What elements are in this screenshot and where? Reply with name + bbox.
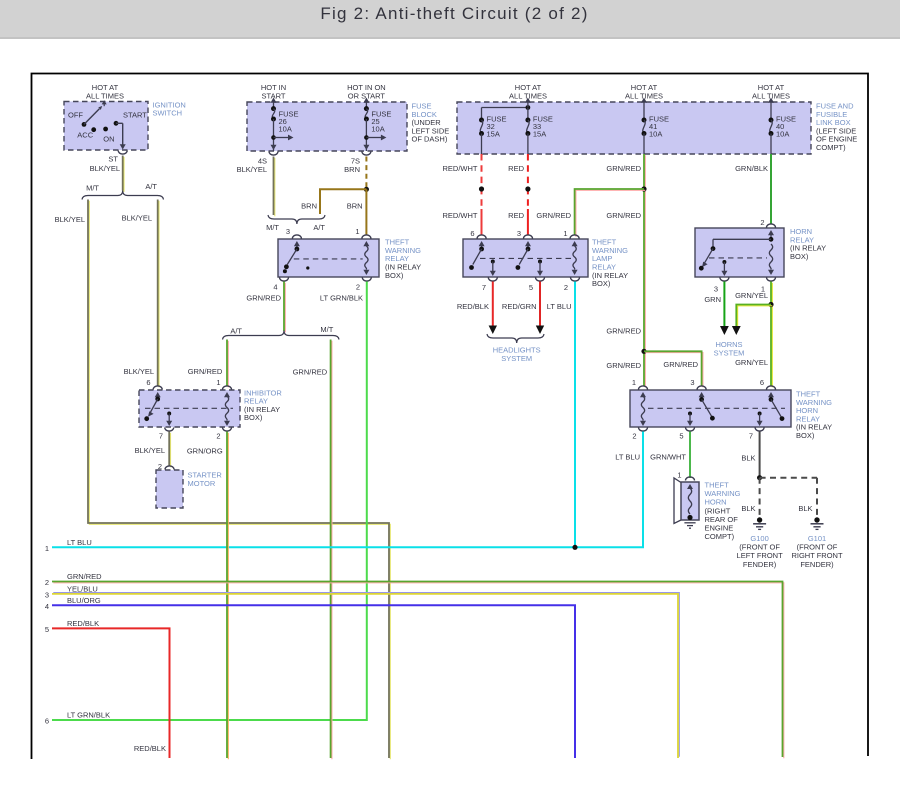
wire GRN/RED M/T long down [331,340,332,760]
inhibitor relay box [139,390,240,427]
wire LT BLU TW horn relay pin 2 [52,432,643,548]
svg-text:A/T: A/T [230,326,242,335]
svg-text:BLK/YEL: BLK/YEL [90,164,120,173]
horn relay pin 3 contact arrow [721,260,727,276]
svg-text:2: 2 [632,432,636,441]
svg-text:RED/BLK: RED/BLK [457,302,489,311]
label BLK (G101) [798,504,812,513]
label BRN (pin 1) [347,201,363,210]
starter motor box [156,470,183,508]
svg-text:ON: ON [103,135,114,144]
pin 1 (TW horn relay) [632,378,636,387]
fuse 40 10A [768,98,796,155]
wire BLK dashed to G100 [759,478,761,517]
inhibitor relay pin 7 connector [165,428,174,432]
fuse block box [247,102,407,151]
label GRN [704,295,721,304]
arrowhead RED/BLK headlights [489,326,497,335]
wire RED solid to lamp relay pin 3 [527,209,529,236]
label RED/WHT (lower) [443,211,478,220]
label ACC [77,131,93,140]
TW horn relay pin 6 connector [767,386,776,390]
pin 2 (lamp relay) [564,283,568,292]
inhibitor relay pin 1 connector [223,386,232,390]
svg-text:START: START [123,111,147,120]
junction BLK [757,475,762,480]
svg-text:MOTOR: MOTOR [188,479,216,488]
inhibitor relay pin 7 contact arrow [166,412,172,427]
svg-text:2: 2 [564,283,568,292]
svg-text:6: 6 [470,229,474,238]
fuse 41 10A [641,98,669,155]
label BLK/YEL (A/T column) [122,214,152,223]
svg-text:GRN/RED: GRN/RED [606,327,641,336]
svg-text:FENDER): FENDER) [743,560,777,569]
inhibitor relay name [244,388,282,422]
label RED/BLK (wire 5) [67,619,99,628]
label BLU/ORG (wire 4) [67,596,101,605]
svg-text:1: 1 [45,544,49,553]
ignition switch contacts and arm [82,100,119,132]
svg-text:BLK/YEL: BLK/YEL [55,215,85,224]
ignition ST connector [118,151,127,155]
theft warning relay name [385,238,421,280]
label BLK (G100) [741,504,755,513]
label RED/GRN (lamp relay) [502,302,537,311]
ignition switch box [64,102,148,151]
wire GRN/RED branch to lamp relay pin 1 [575,189,646,237]
pin 2 (horn relay) [760,218,764,227]
svg-text:M/T: M/T [86,183,99,192]
inhibitor relay dashed link [145,407,233,409]
theft warning relay pin 2 connector [362,278,371,282]
link between fuse 32 and 33 [482,98,531,121]
svg-text:5: 5 [45,625,49,634]
lamp relay dashed link [480,257,572,259]
label RED/WHT (upper) [443,164,478,173]
label RED/BLK (vertical) [134,744,166,753]
pin 1 (inhibitor relay) [216,378,220,387]
junction GRN/RED upper [641,186,646,191]
label LT BLU (TW horn relay) [615,453,640,462]
junction BRN [364,187,369,192]
svg-text:RED: RED [508,164,524,173]
junction GRN/YEL [768,302,773,307]
label GRN/RED (above TW horn relay pin 1) [606,361,641,370]
svg-text:OF DASH): OF DASH) [412,135,448,144]
theft warning relay coil [363,241,369,275]
label BLK/YEL (M/T column) [55,215,85,224]
horns system name [714,340,745,357]
wire BLK/YEL M/T long run [88,200,390,760]
fuse block name [412,102,450,144]
TW horn relay dashed link [648,407,785,409]
svg-text:BRN: BRN [344,165,360,174]
wire ST BLK/YEL [123,156,124,192]
wire 2 GRN/RED [52,582,784,759]
theft warning relay contact dot [306,266,309,269]
TW horn relay switch pin 3 [699,392,715,421]
theft warning lamp relay box [463,239,588,277]
wire 4S BLK/YEL down to M/T brace [274,157,275,217]
svg-text:3: 3 [714,285,718,294]
fuse 26 10A [271,98,299,152]
wire number 3 [45,591,49,600]
label LT GRN/BLK (wire 6) [67,711,110,720]
svg-text:GRN/RED: GRN/RED [606,164,641,173]
svg-text:15A: 15A [487,130,500,139]
svg-text:FENDER): FENDER) [800,560,834,569]
svg-text:GRN/RED: GRN/RED [67,572,102,581]
pin 6 (lamp relay) [470,229,474,238]
wire GRN/BLK from fuse 40 to horn relay pin 2 [770,154,772,224]
svg-text:1: 1 [216,378,220,387]
svg-text:BLK/YEL: BLK/YEL [124,367,154,376]
svg-text:ALL TIMES: ALL TIMES [86,92,124,101]
svg-text:SYSTEM: SYSTEM [501,354,532,363]
svg-text:10A: 10A [279,124,292,133]
svg-text:7: 7 [749,432,753,441]
inhibitor relay pin 6 connector [153,386,162,390]
horn relay coil [768,244,774,275]
theft warning horn ground [684,523,695,528]
arrowhead RED/GRN headlights [536,326,544,335]
inhibitor relay coil [224,392,230,426]
svg-text:A/T: A/T [313,223,325,232]
fuse 33 15A [525,108,553,154]
wire GRN/YEL branch to horns [736,305,772,330]
pin 2 (inhibitor relay) [216,432,220,441]
wire number 2 [45,578,49,587]
label HOT AT ALL TIMES (ignition) [86,83,124,101]
svg-text:BOX): BOX) [244,413,263,422]
svg-text:GRN/RED: GRN/RED [246,294,281,303]
svg-text:2: 2 [356,283,360,292]
svg-text:7: 7 [482,283,486,292]
pin 2 (starter motor) [158,462,162,471]
fuse 25 10A [363,98,391,152]
label GRN/RED (mid trunk) [606,327,641,336]
inhibitor relay pin 2 connector [223,428,232,432]
theft warning relay dashed link [294,258,363,260]
pin 7 (TW horn relay) [749,432,753,441]
svg-text:5: 5 [529,283,533,292]
svg-text:RED/GRN: RED/GRN [502,302,537,311]
label GRN/ORG [187,447,223,456]
svg-text:RED/BLK: RED/BLK [67,619,99,628]
label BLK/YEL (ST) [90,164,120,173]
lamp relay pin 3 connector [524,235,533,239]
svg-text:BLK: BLK [741,504,755,513]
svg-text:M/T: M/T [266,223,279,232]
junction RED/WHT [479,186,484,191]
svg-text:GRN/RED: GRN/RED [606,211,641,220]
brace A/T-M/T split (inhibitor feed) [223,331,340,340]
svg-text:BOX): BOX) [790,252,809,261]
svg-text:BOX): BOX) [796,431,815,440]
svg-text:RED: RED [508,211,524,220]
wire RED/WHT solid to lamp relay pin 6 [481,209,483,236]
label BLK (pin 7) [741,454,755,463]
svg-text:2: 2 [158,462,162,471]
label GRN/RED (M/T column) [293,367,328,376]
TW horn relay pin 7 contact arrow [757,412,763,427]
label M/T (ignition split) [86,183,99,192]
label M/T (gather) [266,223,279,232]
label HOT AT ALL TIMES (fuse 32/33) [509,83,547,101]
wire GRN/RED branch to horn relay pin 3 of TW horn relay [644,351,703,387]
7S connector [362,152,371,156]
label START [123,111,147,120]
ignition switch START feed line [116,123,126,149]
wire BLK TW horn relay pin 7 [759,432,761,478]
lamp relay switch pin 3 [516,241,532,270]
svg-text:10A: 10A [371,124,384,133]
pin 1 (theft warning relay) [355,227,359,236]
svg-text:SWITCH: SWITCH [153,109,183,118]
lamp relay pin 7 connector [488,278,497,282]
svg-text:GRN/RED: GRN/RED [293,367,328,376]
svg-text:BOX): BOX) [385,271,404,280]
theft warning horn name [705,481,741,542]
label A/T (inhibitor split) [230,326,242,335]
svg-text:RED/WHT: RED/WHT [443,164,478,173]
label GRN/WHT [650,453,686,462]
label GRN/RED (branch to pin 3) [663,360,698,369]
horn relay switch [699,230,774,271]
svg-text:ST: ST [108,155,118,164]
svg-text:COMPT): COMPT) [816,143,846,152]
ground G101 [791,517,843,569]
TW horn relay pin 2 connector [639,428,648,432]
wire number 4 [45,602,49,611]
wire RED dashed from fuse 33 [527,154,529,209]
theft warning relay pin 3 connector [292,235,301,239]
svg-text:3: 3 [690,378,694,387]
label ST [108,155,118,164]
svg-text:6: 6 [45,717,49,726]
TW horn relay pin 7 connector [755,428,764,432]
lamp relay pin 2 connector [571,278,580,282]
svg-text:10A: 10A [649,130,662,139]
pin 6 (inhibitor relay) [146,378,150,387]
svg-text:RED/BLK: RED/BLK [134,744,166,753]
wire BRN branch to A/T stub [320,189,366,214]
wire GRN/RED A/T to inhibitor pin 1 [227,340,228,388]
lamp relay pin 1 connector [570,235,579,239]
theft warning horn speaker cone [674,478,681,524]
svg-text:5: 5 [679,432,683,441]
label GRN/YEL (lower) [735,358,768,367]
label RED (upper) [508,164,524,173]
label BLK/YEL (to starter) [135,446,165,455]
label OFF [68,111,83,120]
fuse and fusible link box name [816,102,857,153]
svg-text:LT BLU: LT BLU [615,453,640,462]
label A/T (ignition split) [145,182,157,191]
svg-text:GRN/YEL: GRN/YEL [735,358,768,367]
lamp relay coil [572,241,578,275]
label GRN/RED (pin 4) [246,294,281,303]
label YEL/BLU (wire 3) [67,584,98,593]
svg-text:6: 6 [760,378,764,387]
wire LT GRN/BLK theft warning relay pin 2 [52,282,367,721]
svg-text:LT BLU: LT BLU [547,302,572,311]
lamp relay pin 5 connector [536,278,545,282]
svg-text:GRN/BLK: GRN/BLK [735,164,768,173]
TW horn relay pin 5 connector [686,428,695,432]
svg-text:BRN: BRN [347,201,363,210]
wire number 5 [45,625,49,634]
junction RED [525,186,530,191]
wire RED/WHT dashed from fuse 32 [481,154,483,209]
pin 4 (theft warning relay) [273,283,277,292]
label BLK/YEL (above inhibitor) [124,367,154,376]
horn relay box [695,228,784,277]
wire number 1 [45,544,49,553]
label RED (lower) [508,211,524,220]
theft warning horn relay box [630,390,791,427]
wire RED/BLK to headlights [492,282,494,329]
pin 3 (lamp relay) [517,229,521,238]
ground G100 [737,517,784,569]
horn relay pin 3 connector [720,278,729,282]
theft warning horn coil [687,484,693,520]
fuse 32 15A [479,115,507,154]
label LT BLU (wire 1) [67,538,92,547]
wire BRN into theft warning relay pin 1 [365,189,367,235]
svg-text:2: 2 [216,432,220,441]
svg-text:1: 1 [632,378,636,387]
svg-text:3: 3 [45,591,49,600]
theft warning lamp relay name [592,238,628,289]
TW horn relay pin 5 contact arrow [687,412,693,427]
svg-text:10A: 10A [776,130,789,139]
wire 5 RED/BLK [52,628,170,758]
svg-text:A/T: A/T [145,182,157,191]
lamp relay pin 5 contact arrow [537,260,543,277]
svg-text:ACC: ACC [77,131,93,140]
lamp relay switch pin 6 [469,241,485,270]
pin 1 (horn relay) [761,285,765,294]
label GRN/RED (lamp relay pin 1 label) [536,211,571,220]
svg-text:SYSTEM: SYSTEM [714,348,745,357]
TW horn relay switch pin 6 [768,392,784,421]
junction GRN/RED lower [641,349,646,354]
svg-text:OFF: OFF [68,111,83,120]
horn relay pin 2 connector [767,224,776,228]
pin 2 (theft warning relay) [356,283,360,292]
TW horn relay pin 1 connector [639,386,648,390]
arrowhead GRN/YEL horns [732,326,741,335]
theft warning horn relay name [796,390,832,441]
brace M/T-A/T gather (theft warning relay pin 3) [268,215,325,224]
theft warning relay switch [283,241,300,273]
horn relay name [790,227,826,261]
svg-text:GRN/RED: GRN/RED [188,367,223,376]
svg-text:BLU/ORG: BLU/ORG [67,596,101,605]
theft warning relay box [278,239,379,277]
4S connector [269,152,278,156]
svg-text:3: 3 [286,227,290,236]
svg-text:4: 4 [45,602,49,611]
theft warning horn pin 1 connector [686,477,695,481]
lamp relay pin 7 contact arrow [490,260,496,277]
wire 3 YEL/BLU [52,593,679,758]
svg-text:6: 6 [146,378,150,387]
svg-text:4: 4 [273,283,277,292]
svg-text:2: 2 [45,578,49,587]
label BRN (left stub) [301,201,317,210]
page title bar [0,0,900,39]
label LT BLU (lamp relay) [547,302,572,311]
pin 5 (TW horn relay) [679,432,683,441]
pin 1 (theft warning horn) [677,471,681,480]
label LT GRN/BLK (pin 2) [320,294,363,303]
svg-text:1: 1 [563,229,567,238]
svg-text:1: 1 [677,471,681,480]
svg-text:GRN/WHT: GRN/WHT [650,453,686,462]
label GRN/YEL (upper) [735,291,768,300]
TW horn relay pin 3 connector [697,386,706,390]
label GRN/BLK [735,164,768,173]
arrowhead GRN horns [720,326,729,335]
label ON [103,135,114,144]
svg-text:M/T: M/T [320,325,333,334]
horn relay pin 1 connector [767,278,776,282]
wire GRN/RED trunk from fuse 41 [644,154,645,387]
svg-text:GRN/RED: GRN/RED [606,361,641,370]
wire BLK dashed to G101 [760,478,817,517]
starter motor pin 2 connector [165,466,174,470]
pin 5 (lamp relay) [529,283,533,292]
theft warning relay pin 4 connector [280,278,289,282]
pin 1 (lamp relay) [563,229,567,238]
label M/T (inhibitor split) [320,325,333,334]
svg-text:7: 7 [159,432,163,441]
label GRN/RED (above lamp relay) [606,211,641,220]
svg-text:BLK: BLK [798,504,812,513]
svg-text:LT GRN/BLK: LT GRN/BLK [320,294,363,303]
headlights system name [493,346,541,363]
ignition switch name [153,100,186,117]
svg-text:BOX): BOX) [592,279,611,288]
label 4S [258,157,267,166]
label HOT IN ON OR START [347,83,386,101]
svg-text:GRN/RED: GRN/RED [663,360,698,369]
fuse and fusible link box [457,102,811,154]
wire 4 BLU/ORG [52,605,575,758]
svg-text:GRN/YEL: GRN/YEL [735,291,768,300]
svg-text:LT GRN/BLK: LT GRN/BLK [67,711,110,720]
wire LT BLU lamp relay pin 2 down [574,282,576,548]
label BRN (7S) [344,165,360,174]
wire RED/GRN to headlights [539,282,541,329]
svg-text:RED/WHT: RED/WHT [443,211,478,220]
inhibitor relay switch [144,392,160,421]
theft warning horn body [681,482,699,520]
svg-text:BLK/YEL: BLK/YEL [135,446,165,455]
wire 7S BRN dashed [365,157,367,190]
TW horn relay coil [640,392,646,426]
pin 7 (lamp relay) [482,283,486,292]
svg-text:3: 3 [517,229,521,238]
pin 2 (TW horn relay) [632,432,636,441]
label HOT AT ALL TIMES (fuse 40) [752,83,790,101]
wire GRN/RED theft warning relay pin 4 [284,282,285,333]
theft warning relay pin 1 connector [362,235,371,239]
lamp relay pin 6 connector [477,235,486,239]
